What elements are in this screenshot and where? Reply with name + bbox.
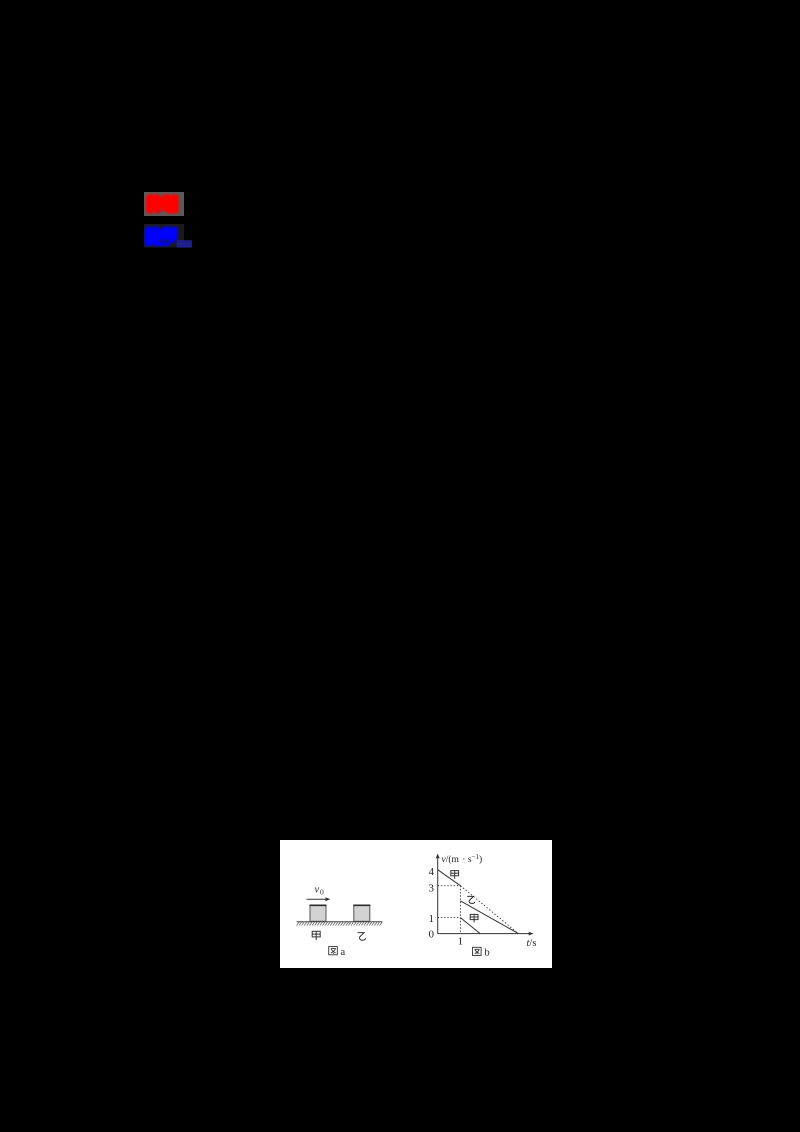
x axis	[437, 932, 530, 934]
ground line	[296, 920, 382, 922]
svg-text:0: 0	[428, 928, 434, 940]
red "answer" tag (blurred red text on gray box)	[144, 192, 184, 216]
caption "fig a"	[328, 946, 337, 954]
velocity arrow	[306, 898, 327, 900]
svg-text:0: 0	[320, 887, 324, 896]
svg-text:v: v	[314, 884, 319, 895]
line jia before collision (0,4)-(1,3)	[437, 869, 460, 885]
svg-text:v/(m · s−1): v/(m · s−1)	[441, 853, 482, 865]
block jia	[310, 905, 326, 921]
block yi	[353, 905, 369, 921]
line jia after collision (1,1)-(1.88,0)	[460, 917, 480, 933]
dotted v line t=1	[459, 885, 461, 933]
dotted h line v=3	[437, 884, 460, 886]
svg-text:t/s: t/s	[526, 938, 536, 949]
svg-text:b: b	[484, 947, 489, 958]
dotted h line v=1	[437, 916, 460, 918]
dotted extrapolation (1,3)-(3.55,0)	[460, 885, 518, 933]
glyph yi (middle line label)	[467, 896, 475, 903]
glyph jia (lower line label)	[470, 914, 478, 922]
caption "fig b"	[472, 947, 481, 955]
svg-text:1: 1	[428, 913, 434, 925]
glyph jia (top, near start of line)	[450, 870, 458, 878]
line yi after collision (1,2)-(3.55,0)	[460, 900, 518, 933]
svg-text:a: a	[340, 947, 345, 958]
svg-text:4: 4	[428, 866, 434, 878]
white figure panel	[280, 840, 553, 969]
y axis	[436, 856, 438, 933]
ground hatching	[296, 922, 382, 926]
label yi under right block	[357, 932, 365, 940]
blue "analysis" tag (blurred blue text on dark box + navy caret)	[144, 224, 192, 248]
label jia under left block	[312, 931, 320, 940]
svg-text:1: 1	[457, 935, 463, 947]
svg-text:3: 3	[428, 882, 434, 894]
